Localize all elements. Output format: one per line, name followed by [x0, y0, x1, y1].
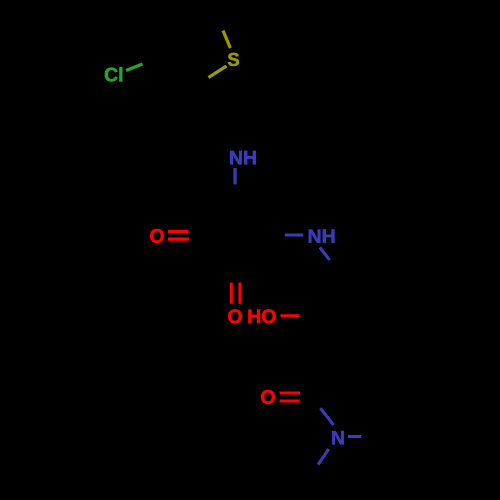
double bond O4=C upper line [280, 392, 300, 395]
double bond O1=C lower line [168, 238, 189, 241]
atom O2 ketone oxygen [228, 309, 242, 323]
bond N2-CH2 [320, 247, 330, 260]
bond CH3-S1 (thiophene S-methyl upper) [223, 31, 230, 49]
bond N3-CH3 right [348, 435, 361, 438]
atom O3 hydroxyl HO [248, 309, 275, 323]
double bond O1=C upper line [168, 230, 189, 233]
atom O1 ketone oxygen [150, 229, 164, 243]
bond N3-CH3 lower left [318, 449, 329, 465]
bond N1-C ring [233, 168, 236, 184]
double bond O2=C left line [230, 283, 233, 304]
bond N2-C ring [285, 234, 304, 237]
atom O4 amide oxygen [261, 390, 275, 404]
bond O3-C hydroxyl [281, 314, 300, 317]
atom N2 amine NH [309, 229, 335, 242]
double bond O4=C lower line [280, 400, 300, 403]
atom S1 thiophene sulfur [228, 53, 239, 66]
bond S1-C2 thiophene [209, 66, 227, 78]
atom N1 amine NH [230, 151, 256, 164]
atom N3 dimethylamide nitrogen [332, 431, 343, 444]
bond Cl-C3 [126, 64, 143, 71]
bond C(=O)-N3 amide [320, 408, 333, 425]
atom Cl chlorine [105, 67, 122, 81]
double bond O2=C right line [238, 283, 241, 304]
